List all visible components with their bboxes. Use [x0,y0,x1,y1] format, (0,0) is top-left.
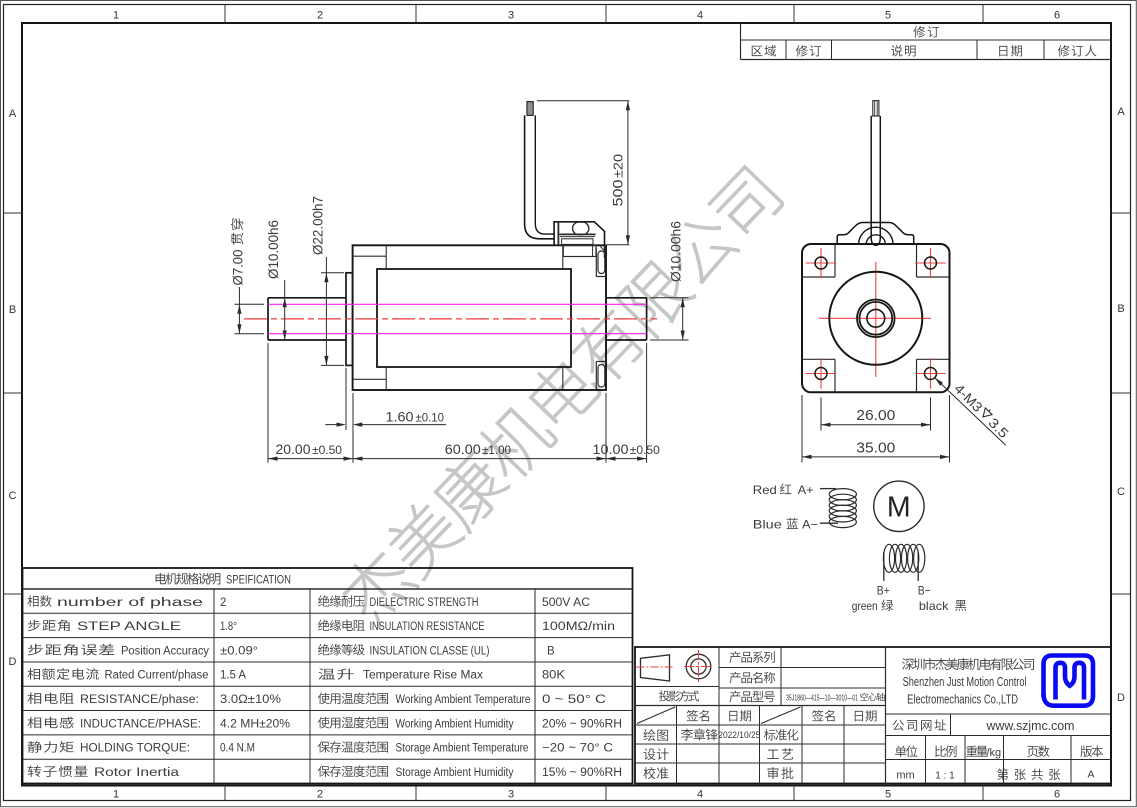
svg-text:Shenzhen Just Motion Control: Shenzhen Just Motion Control [903,675,1027,689]
svg-text:Rotor Inertia: Rotor Inertia [94,767,180,779]
side view: rear screw recess top [595,248,597,277]
svg-text:1.8°: 1.8° [220,621,237,633]
svg-text:Temperature Rise Max: Temperature Rise Max [363,670,483,682]
svg-text:500: 500 [610,179,626,206]
dimension 26.00 hole spacing [820,397,822,430]
diagonal slashes in signature header [637,707,675,724]
svg-text:±0.50: ±0.50 [630,445,660,457]
spec row 1 [27,595,51,607]
svg-text:500V AC: 500V AC [542,597,590,609]
svg-text:B−: B− [918,584,931,598]
side view: rear shaft [606,297,647,299]
svg-text:A−: A− [802,517,818,531]
svg-text:±0.09°: ±0.09° [220,645,258,657]
svg-text:20.00: 20.00 [276,441,311,457]
svg-text:5: 5 [885,789,891,801]
dimension Ø10.00h6 rear shaft [682,298,684,340]
svg-text:2: 2 [317,789,323,801]
side view: connector housing [554,222,604,245]
side view: motor body outline [353,245,606,390]
svg-text:green: green [852,599,878,613]
svg-text:RESISTANCE/phase:: RESISTANCE/phase: [80,694,199,706]
motor specification table [23,568,633,784]
svg-text:DIELECTRIC STRENGTH: DIELECTRIC STRENGTH [370,597,479,609]
svg-text:INSULATION CLASSE (UL): INSULATION CLASSE (UL) [370,645,490,657]
front view: pilot boss Ø22 [829,272,922,365]
svg-text:number of phase: number of phase [57,597,203,609]
dimension Ø10.00h6 front shaft [284,280,286,340]
dimension 35.00 face size [801,395,803,463]
front view: lead wire [871,116,880,245]
watermark 杰美康机电有限公司 diagonal gray text [334,162,786,629]
wire B- [917,552,919,581]
svg-text:±0.50: ±0.50 [312,445,342,457]
wire A+ [820,488,836,490]
side view: stator lamination stack [377,269,571,367]
svg-text:15% ~ 90%RH: 15% ~ 90%RH [542,767,622,779]
svg-text:Ø22.00h7: Ø22.00h7 [309,196,325,255]
front view: shaft circles [857,300,895,338]
signature grid labels [686,710,709,722]
svg-text:10.00: 10.00 [593,441,629,457]
svg-text:2022/10/25: 2022/10/25 [718,730,760,740]
coil B (phase B winding) [883,544,924,572]
spec row 2 [28,620,70,632]
svg-text:A: A [9,108,17,120]
title block labels [729,651,774,663]
dimension 1.60±0.10 flange thickness [345,368,347,430]
svg-text:Ø10.00h6: Ø10.00h6 [265,220,281,279]
svg-text:Position Accuracy: Position Accuracy [121,645,209,657]
side view: front shaft [268,297,346,299]
side view: connector base under cap [563,245,596,256]
spec row 7 [28,741,74,753]
svg-text:B: B [1117,303,1124,315]
front view: wire strain relief [837,223,914,245]
svg-text:−20 ~ 70° C: −20 ~ 70° C [542,743,613,755]
side view: lead wire tube [525,115,555,238]
svg-text:4: 4 [697,789,703,801]
coil A (phase A winding) [829,489,856,528]
svg-text:A+: A+ [798,483,814,497]
dimension Ø22.00h7 flange boss [321,272,344,274]
svg-text:black: black [919,599,950,613]
spec row 8 [28,765,88,777]
bottom chained dimensions 20/60/10 [267,343,269,463]
shaft centerline (red dash-dot) [244,318,657,320]
company logo (blue M) [1044,656,1094,706]
svg-text:20% ~ 90%RH: 20% ~ 90%RH [542,718,622,730]
svg-text:1: 1 [113,789,119,801]
svg-text:±1.00: ±1.00 [482,445,511,457]
svg-text:3.0Ω±10%: 3.0Ω±10% [220,694,281,706]
spec table header [156,573,221,585]
spec row 4 [27,668,98,680]
svg-text:D: D [9,656,17,668]
hollow shaft bore lines (magenta) [268,303,647,305]
svg-text:26.00: 26.00 [856,408,895,424]
wire B+ [883,552,885,581]
side view: rear cap edge [562,245,564,269]
spec row 3 [28,644,114,656]
svg-text:Red: Red [753,483,777,497]
side view: front cap shoulder lines [353,255,387,257]
svg-text:3.5: 3.5 [985,415,1011,441]
svg-text:D: D [1117,692,1125,704]
svg-text:80K: 80K [542,670,565,682]
svg-text:3: 3 [508,10,514,22]
svg-text:M: M [887,492,911,524]
svg-text:Working Ambient Temperature: Working Ambient Temperature [396,694,531,706]
svg-text:5: 5 [885,10,891,22]
svg-text:60.00: 60.00 [445,441,481,457]
motor symbol M [874,481,924,531]
side view: stripped wire tip [527,102,533,116]
svg-text:INSULATION RESISTANCE: INSULATION RESISTANCE [370,621,485,633]
svg-text:±0.10: ±0.10 [416,412,445,424]
svg-text:C: C [9,490,17,502]
svg-text:Storage Ambient Temperature: Storage Ambient Temperature [396,743,529,755]
projection method symbols [641,655,670,681]
svg-text:1: 1 [113,10,119,22]
svg-text:2: 2 [220,597,226,609]
front view: mounting holes 4-M3 with red crosshairs [806,262,836,264]
svg-text:1.5 A: 1.5 A [220,670,246,682]
zone tick marks [224,5,226,24]
svg-text:0 ~ 50° C: 0 ~ 50° C [542,694,606,706]
svg-text:100MΩ/min: 100MΩ/min [542,621,615,633]
spec row 5 [27,693,73,704]
svg-text:1 : 1: 1 : 1 [935,771,955,782]
wire A- [820,522,838,524]
svg-text:C: C [1117,486,1125,498]
svg-text:±20: ±20 [612,154,626,178]
svg-text:A: A [1087,769,1094,781]
svg-text:Ø10.00h6: Ø10.00h6 [668,221,684,282]
svg-text:Storage Ambient Humidity: Storage Ambient Humidity [396,767,514,779]
revision table [740,23,742,60]
svg-text:0.4 N.M: 0.4 N.M [220,743,255,755]
svg-text:HOLDING TORQUE:: HOLDING TORQUE: [80,743,190,755]
front view: corner cutout lines [834,244,836,277]
svg-text:B+: B+ [877,584,890,598]
unit/scale/weight/pages/version row [895,745,917,757]
svg-text:B: B [547,645,555,657]
svg-text:2: 2 [317,10,323,22]
svg-text:Working Ambient Humidity: Working Ambient Humidity [396,718,514,730]
svg-text:Blue: Blue [753,517,782,531]
svg-text:/kg: /kg [987,747,1002,759]
svg-text:1.60: 1.60 [386,408,414,424]
spec row 6 [27,717,73,728]
website row [893,719,946,730]
svg-text:35.00: 35.00 [856,440,895,456]
svg-text:6: 6 [1054,10,1060,22]
svg-text:Ø7.00: Ø7.00 [229,249,245,285]
svg-text:STEP ANGLE: STEP ANGLE [77,621,181,633]
svg-text:INDUCTANCE/PHASE:: INDUCTANCE/PHASE: [80,718,201,730]
svg-text:35J1860—415—10—3010—01: 35J1860—415—10—3010—01 [786,693,858,703]
front view: center crosshair [875,262,877,377]
dimension 500±20 wire length [537,100,629,102]
front view: face plate with rounded corners [802,244,950,392]
side view: front cap edge [385,245,387,269]
svg-text:6: 6 [1054,789,1060,801]
svg-text:4: 4 [697,10,703,22]
side view: front mounting flange plate [346,273,353,366]
svg-text:Rated Current/phase: Rated Current/phase [105,670,209,682]
svg-text:B: B [9,304,16,316]
dimension Ø7.00 through-bore [235,303,265,305]
svg-text:4.2 MH±20%: 4.2 MH±20% [220,718,290,730]
svg-text:A: A [1117,106,1125,118]
svg-text:SPEIFICATION: SPEIFICATION [226,573,291,587]
svg-text:mm: mm [896,770,914,782]
svg-text:www.szjmc.com: www.szjmc.com [986,718,1075,733]
leader note 4-M3 depth 3.5 [935,378,1006,446]
svg-text:3: 3 [508,789,514,801]
title block [635,647,1111,784]
company name block [886,713,1112,715]
svg-text:Electromechanics Co.,LTD: Electromechanics Co.,LTD [907,693,1018,707]
side view: rear screw recess bottom [595,362,597,391]
